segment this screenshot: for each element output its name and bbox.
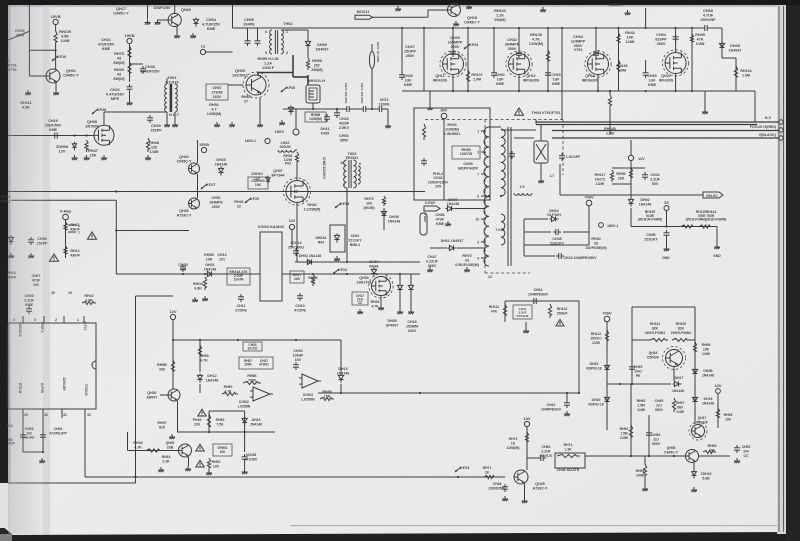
- ground rh04: [202, 296, 208, 301]
- ground TH01: [164, 122, 170, 127]
- label CH15: [563, 256, 597, 260]
- capacitor CH23: [334, 110, 340, 118]
- wire top feed x232: [232, 5, 234, 28]
- wire resistor to base node: [55, 45, 57, 69]
- node bus j: [617, 27, 619, 29]
- label DH02: [299, 254, 321, 258]
- ic text 7: [84, 384, 88, 395]
- node chb: [42, 451, 44, 453]
- label RH100: [671, 322, 692, 335]
- wire y448: [128, 450, 179, 452]
- wire x631b: [630, 384, 632, 456]
- flyback core b: [510, 127, 512, 266]
- node y456a: [630, 455, 632, 457]
- transistor QH06: [686, 450, 699, 463]
- boxed label RH27: [290, 271, 304, 283]
- wire DH28 branch: [721, 28, 723, 58]
- node bus m: [691, 27, 693, 29]
- label CH46: [140, 65, 160, 73]
- ic ICH03 KA3843: [260, 232, 282, 301]
- label H-V: [765, 116, 772, 120]
- capacitor CH19 series: [52, 133, 60, 139]
- ground mid c: [279, 120, 285, 125]
- label CH19b: [45, 119, 62, 132]
- wire QH20 base: [158, 19, 169, 21]
- wire FOCUS line: [552, 130, 779, 132]
- transistor QH25: [514, 470, 528, 484]
- pointer KF23c: [455, 466, 470, 472]
- wire x85 down: [84, 420, 86, 477]
- label DH01: [204, 263, 217, 271]
- connector LTSER: [420, 213, 427, 235]
- node s3: [665, 225, 667, 227]
- capacitor CH40: [293, 362, 299, 370]
- label DH12: [206, 374, 219, 382]
- wire hv spine d: [384, 108, 389, 110]
- diode right b: [408, 283, 413, 292]
- ground mid a: [214, 122, 220, 127]
- wire drb down: [410, 292, 412, 309]
- node bus f: [518, 27, 520, 29]
- terminal 7V: [200, 44, 205, 55]
- diode DH16: [692, 395, 697, 404]
- top black border: [0, 0, 800, 5]
- label RH112b: [590, 332, 602, 345]
- wire 12v down: [630, 161, 632, 198]
- wire x649: [648, 415, 650, 456]
- pin4: [13, 318, 15, 322]
- label KBL: [706, 194, 718, 198]
- capacitor CH27: [399, 72, 405, 80]
- ic pin stub c: [63, 316, 65, 323]
- label CH05d: [23, 427, 35, 440]
- wire QH09 emitter: [259, 98, 261, 122]
- label DH07: [447, 198, 460, 206]
- label RH59: [199, 354, 208, 362]
- transistor QH09: [243, 72, 269, 98]
- label CH13: [217, 253, 226, 261]
- pin20: [51, 291, 55, 295]
- wire x341: [340, 340, 342, 374]
- wire drop x519: [518, 28, 520, 53]
- transistor QH03: [179, 444, 192, 457]
- transistor QH16 inner: [666, 350, 683, 367]
- wire power elbow: [293, 76, 308, 78]
- box 80V regulator: [414, 108, 490, 200]
- ic bstub d: [84, 409, 86, 420]
- label RH111: [20, 101, 31, 109]
- transformer TH02: [270, 30, 284, 54]
- ground ch41: [523, 328, 529, 333]
- label 12V fb: [638, 157, 645, 161]
- spark gap RH77: [369, 52, 374, 69]
- ic pin stub b: [43, 316, 45, 323]
- ground q3b: [185, 466, 191, 471]
- node loop b: [244, 431, 246, 433]
- label RH42: [625, 31, 635, 44]
- node dra: [399, 273, 401, 275]
- label QH06: [664, 446, 679, 454]
- label QH03b: [166, 441, 175, 449]
- wire y456: [585, 455, 686, 457]
- wire xray down: [65, 220, 67, 258]
- label RH32: [304, 203, 322, 211]
- terminal X-Ray: [60, 209, 72, 220]
- mosfet QH22: [663, 50, 689, 76]
- pin 6b: [359, 162, 361, 166]
- node y340c: [237, 339, 239, 341]
- label RH49: [113, 68, 125, 81]
- terminal 12V b: [289, 224, 294, 229]
- ground rh07: [169, 434, 175, 439]
- label DH16: [702, 397, 714, 405]
- wire 13va down: [526, 427, 528, 470]
- label RH92: [620, 427, 629, 440]
- diode near RH68: [288, 105, 293, 114]
- label RH72: [507, 437, 520, 450]
- wire drop x424: [423, 28, 425, 91]
- ground QH09 e: [257, 122, 263, 127]
- pin 6: [265, 30, 267, 34]
- ic text 3: [83, 321, 87, 331]
- wire QH09 coll right: [258, 72, 293, 74]
- label 10UF/25V: [153, 6, 171, 10]
- label DH05: [386, 319, 399, 327]
- transistor QH25m: [189, 198, 200, 209]
- label CH64: [655, 33, 667, 46]
- ground gnd-a: [664, 246, 670, 251]
- wire q24-q25: [197, 174, 199, 198]
- capacitor CH34 sym: [593, 50, 599, 58]
- terminal H-V: [779, 120, 783, 124]
- resistor RH60 sym: [222, 392, 238, 395]
- resistor RH10 sym: [82, 301, 96, 304]
- resistor RH56: [306, 58, 309, 70]
- wire QH01 base: [29, 75, 46, 77]
- pin 3: [286, 51, 288, 55]
- node bus h: [561, 27, 563, 29]
- wire ch42 stub: [566, 393, 568, 400]
- label QH08: [85, 120, 98, 128]
- wire 12vc down: [172, 320, 174, 389]
- ground gnd-b: [714, 244, 720, 249]
- wire ch41 gnd: [525, 322, 527, 328]
- label RH65: [241, 95, 250, 103]
- ground drb: [408, 309, 414, 314]
- ground CH21: [127, 100, 133, 105]
- wire QH22 src: [675, 74, 677, 92]
- label CH53box: [248, 343, 259, 351]
- capacitor CH21: [127, 84, 133, 92]
- wire xray to flyback: [455, 208, 485, 210]
- ground m4: [101, 155, 107, 160]
- resistor RH90: [629, 168, 632, 180]
- label GND b: [713, 254, 721, 258]
- node y456b: [648, 455, 650, 457]
- wire qh02 em: [177, 401, 179, 432]
- label RH14: [7, 271, 16, 279]
- ground g: [625, 10, 631, 15]
- ground near QH01: [25, 90, 31, 95]
- label DH14: [337, 367, 350, 375]
- capacitor CH68: [702, 25, 710, 31]
- wire gnd stub: [704, 91, 706, 109]
- resistor RH33: [422, 124, 425, 140]
- label CH44: [528, 288, 549, 296]
- label RH60: [224, 385, 233, 393]
- mosfet QH13: [585, 51, 611, 77]
- wire rh10b: [609, 91, 611, 95]
- label RH101: [645, 322, 666, 335]
- label CH2B: [644, 233, 658, 241]
- label L7: [550, 174, 554, 178]
- pointer KF28: [92, 108, 107, 114]
- node row i: [691, 90, 693, 92]
- wire gnd stub b: [429, 91, 431, 105]
- wire CH45 stub: [524, 231, 551, 233]
- node y191 b: [296, 190, 298, 192]
- label RH51: [207, 103, 222, 116]
- label CH07: [32, 274, 41, 287]
- resistor RH117: [610, 170, 613, 182]
- transistor QH17 inner: [692, 425, 705, 438]
- paper crease band: [43, 5, 50, 535]
- wire TH02 pin3 down: [292, 55, 294, 77]
- wire ch2b down: [666, 238, 668, 246]
- label CH47: [426, 255, 439, 268]
- wire H-V line: [536, 121, 779, 123]
- dashed outline flyback right: [562, 120, 564, 176]
- capacitor CH52: [646, 430, 652, 438]
- wire TH01 left bottom: [166, 112, 168, 122]
- label CH32: [505, 38, 520, 51]
- label RH94: [636, 469, 645, 477]
- scan noise overlay: [0, 0, 1, 1]
- wire drop x692: [691, 28, 693, 91]
- resistor RH107: [466, 70, 469, 84]
- capacitor CH44: [531, 298, 539, 304]
- label RH2B: [204, 253, 214, 261]
- node b274d: [346, 273, 348, 275]
- resistor RH95 sym: [703, 450, 716, 453]
- ground b: [155, 20, 161, 25]
- capacitor CH64: [673, 34, 679, 42]
- inductor LH02: [278, 150, 295, 152]
- label RH04: [193, 282, 203, 290]
- wire 12vfb up: [630, 140, 632, 155]
- capacitor CH65: [643, 70, 649, 78]
- wire y340: [173, 339, 341, 341]
- capacitor CH32: [516, 50, 522, 58]
- label CH23: [339, 117, 350, 130]
- wire qh03 loop bottom: [177, 431, 275, 433]
- node bus g: [547, 27, 549, 29]
- diode DH19 sym: [604, 395, 609, 404]
- frame line right inner: [783, 6, 785, 532]
- label RH31: [283, 154, 292, 166]
- wire x127: [127, 432, 129, 451]
- wire hv stub: [535, 120, 537, 125]
- label DH22: [639, 198, 652, 206]
- diode right a: [397, 283, 402, 292]
- diode DH03A sym: [334, 233, 339, 242]
- flyback top link: [489, 126, 501, 128]
- label QH11: [433, 74, 448, 82]
- label QH07: [272, 169, 285, 177]
- label 180V-1: [607, 224, 618, 228]
- label DH28: [728, 44, 741, 52]
- label RH44: [162, 455, 171, 463]
- terminal 13V a: [523, 416, 530, 427]
- label VRH01: [217, 446, 228, 454]
- warning ch41: [556, 319, 564, 325]
- connector KBL/4C: [703, 192, 723, 198]
- node spine c: [371, 108, 373, 110]
- transistor QH16: [663, 347, 686, 370]
- capacitor CH20: [147, 115, 153, 123]
- label CH09: [458, 162, 479, 170]
- label CH70: [344, 83, 348, 104]
- wire y393 vert up: [578, 301, 580, 393]
- node y340a: [172, 339, 174, 341]
- wire 7V right: [206, 51, 233, 53]
- node fb b: [488, 195, 490, 197]
- label QH01: [63, 69, 79, 77]
- label RH58: [157, 363, 167, 371]
- capacitor CH05b: [255, 38, 261, 46]
- resistor RH109: [54, 31, 57, 45]
- wire zdh v: [693, 463, 695, 470]
- label RH71: [483, 466, 492, 474]
- diode mid: [8, 235, 13, 244]
- pin 10: [340, 161, 344, 165]
- label RH57: [244, 359, 253, 367]
- wire RH104 v: [735, 58, 737, 91]
- label QH22: [659, 74, 674, 82]
- page shadow left: [0, 0, 1, 1]
- wire TH01 left top: [166, 78, 168, 84]
- boxed label CH41: [513, 305, 532, 319]
- node y191 a: [115, 190, 117, 192]
- label CH45: [550, 237, 565, 245]
- label QH16: [647, 351, 659, 359]
- diode DH17: [672, 381, 681, 386]
- capacitor CH84: [538, 455, 546, 461]
- pin1: [77, 318, 79, 322]
- label CH57: [212, 86, 223, 99]
- connector MCU11: [355, 15, 373, 19]
- label QH18: [464, 16, 480, 24]
- label CH21: [106, 88, 124, 101]
- node row a: [452, 90, 454, 92]
- label ICH02b: [301, 393, 315, 401]
- label CH53c: [742, 445, 751, 458]
- label DH11: [321, 127, 330, 135]
- label KB: [8, 438, 15, 446]
- capacitor CH48: [502, 484, 508, 492]
- label RH75: [113, 52, 125, 65]
- wire fb top a: [501, 129, 536, 131]
- label DH17b: [672, 389, 684, 393]
- ground qh25: [522, 498, 528, 503]
- diode DH48: [692, 367, 697, 376]
- wire x341b: [340, 384, 342, 393]
- node bus c: [452, 27, 454, 29]
- label CH42: [541, 403, 562, 411]
- wire L6450 drop: [645, 8, 647, 28]
- ic text 5: [40, 383, 44, 393]
- resistor RH43 sym: [146, 449, 162, 452]
- node row h: [675, 90, 677, 92]
- dashed outline flyback top: [425, 119, 563, 121]
- wire drop x453: [452, 28, 454, 53]
- resistor RH94 sym: [643, 464, 646, 478]
- resistor RH52 sym: [207, 458, 210, 470]
- ground e: [466, 4, 472, 9]
- capacitor CH49: [629, 364, 635, 372]
- label CH34: [571, 35, 586, 52]
- wire bus274 right: [282, 273, 420, 275]
- label CH05c: [37, 237, 48, 245]
- capacitor CH70: [344, 106, 352, 112]
- label RH115: [638, 210, 663, 222]
- diode DH12: [197, 373, 202, 382]
- terminal 13V c: [714, 383, 721, 393]
- terminal VBLACK: [779, 136, 783, 140]
- label RH79: [363, 197, 375, 210]
- flyback core a: [507, 127, 509, 266]
- node row c: [518, 90, 520, 92]
- ground QH20: [174, 33, 180, 38]
- resistor RH31: [295, 152, 298, 164]
- wire 80V down: [443, 119, 445, 200]
- wire dh22 down: [630, 208, 632, 227]
- wire drop x468: [467, 28, 469, 91]
- ic notch: [92, 361, 96, 369]
- page left edge shade: [8, 5, 11, 483]
- capacitor CH43: [642, 172, 648, 180]
- wire drop x548: [547, 28, 549, 91]
- label QH12: [523, 74, 540, 82]
- left black border: [0, 0, 8, 483]
- ground m1: [72, 155, 78, 160]
- wire DH24 left: [524, 218, 548, 220]
- wire CH21 down: [129, 92, 131, 100]
- resistor RH99 sym: [693, 342, 696, 354]
- node spine b: [336, 108, 338, 110]
- node y340b: [199, 339, 201, 341]
- label RH112: [489, 305, 499, 313]
- warning q3a: [196, 444, 204, 451]
- ic pin stub a: [22, 316, 24, 323]
- page bottom edge line: [290, 525, 786, 526]
- terminal 700V b: [602, 311, 612, 322]
- wire y296: [136, 295, 174, 297]
- label CH84: [540, 445, 553, 458]
- label RH10B: [604, 127, 616, 135]
- wire bus262: [295, 261, 420, 263]
- pin10: [68, 291, 72, 295]
- resistor RH48: [146, 138, 149, 152]
- label RH77: [376, 42, 380, 62]
- wire QH01 emitter: [55, 83, 57, 91]
- node bus l: [675, 27, 677, 29]
- label CH52: [652, 433, 661, 446]
- mosfet QH04: [369, 274, 393, 298]
- wire CH45 stub2: [563, 231, 589, 233]
- wire q-mid down: [296, 203, 298, 263]
- node g2: [85, 134, 87, 136]
